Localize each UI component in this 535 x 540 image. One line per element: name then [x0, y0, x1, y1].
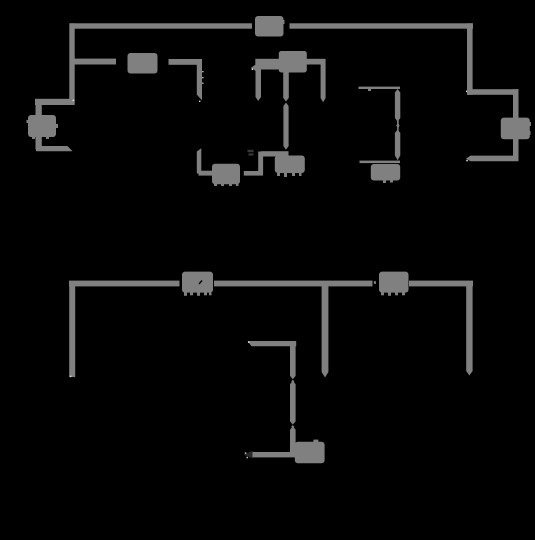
resistor R1 label blob (top center): [255, 16, 285, 37]
resistor R2 label blob: [128, 53, 158, 74]
wire into R3: [199, 171, 213, 176]
node B dark label: [248, 150, 254, 156]
resistor R5 label blob: [182, 272, 213, 296]
white dotted marks: [199, 71, 204, 102]
wire middle horizontal of capacitor group: [255, 59, 325, 65]
wire branch horizontal to R2: [72, 59, 116, 65]
wire right bottom return (tapered left end): [466, 156, 519, 162]
wire jog horizontal at node A: [35, 99, 75, 105]
wire vertical below corner (open end): [197, 59, 202, 100]
source VS1 label blob: [27, 115, 59, 139]
wire bottom middle vertical: [322, 286, 329, 378]
capacitor C1 label blob: [279, 51, 307, 73]
wire into R4: [513, 89, 519, 118]
node A white speck: [73, 100, 75, 102]
wire inner vertical diamond 2: [291, 425, 294, 429]
wire top horizontal right segment: [290, 23, 474, 28]
wire inner vertical diamond 1: [291, 380, 294, 384]
wire right leg of group (tapered): [321, 59, 326, 102]
resistor R4 label blob: [501, 118, 531, 140]
wire from R2 to corner: [169, 59, 203, 65]
ground arrow dark mark: [244, 451, 253, 458]
current arrow shaft: [256, 65, 283, 70]
wire inner horizontal upper (beveled left end): [248, 341, 297, 346]
wire inner vertical bar 2: [290, 381, 296, 425]
wire into source VS1: [36, 99, 42, 117]
capacitor C2 top plate (thin line): [359, 87, 401, 89]
wire right horizontal: [467, 89, 519, 95]
current arrow head pointing left: [251, 64, 257, 72]
wire inner vertical bar 1: [290, 341, 296, 379]
wire from R3 to jog: [244, 171, 263, 176]
resistor R7 label blob (bottom): [295, 440, 325, 464]
wire middle leg lower diamond bar: [283, 103, 288, 150]
capacitor C2 bottom plate (thin line): [360, 161, 401, 164]
resistor R3 label blob: [212, 164, 240, 186]
wire inner horizontal lower: [250, 452, 297, 457]
wire inner vertical bar 3: [290, 426, 296, 452]
wire left vertical: [69, 23, 74, 105]
wire left leg of group (tapered end): [256, 65, 262, 102]
wire bottom right vertical (tapered end): [466, 286, 472, 376]
wire bottom top-rail segment B: [214, 281, 373, 287]
capacitor C2 lower bar: [395, 130, 400, 161]
capacitor C2 pinch: [397, 120, 399, 133]
node B label blob: [275, 156, 305, 178]
wire vertical resuming to R3: [197, 148, 202, 173]
wire bottom top-rail segment C: [409, 281, 473, 287]
wire right vertical from top: [467, 23, 473, 95]
capacitor C2 upper bar: [395, 89, 400, 122]
wire middle leg upper (tapered): [283, 73, 289, 102]
wire bottom top-rail segment A: [69, 281, 180, 287]
wire top horizontal left segment: [70, 23, 252, 28]
wire below source VS1: [36, 137, 42, 150]
wire jog top horizontal to node B: [261, 151, 289, 156]
wire bottom left vertical: [69, 281, 75, 377]
capacitor C2 pinch diamond: [396, 123, 399, 129]
wire below R4: [513, 139, 519, 161]
wire jog vertical: [258, 152, 263, 176]
capacitor C2 value label blob: [371, 164, 400, 183]
resistor R6 label blob: [374, 272, 409, 296]
wire bottom stub with beveled end: [36, 146, 73, 151]
node C white speck: [466, 91, 468, 93]
